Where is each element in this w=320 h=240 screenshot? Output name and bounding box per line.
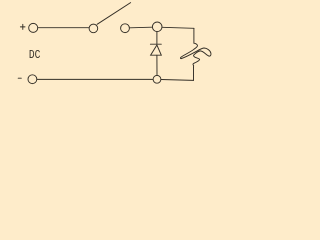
terminal + (top left): [29, 23, 38, 32]
wire bottom rail right: [161, 79, 193, 82]
switch S1 arm: [97, 3, 131, 25]
diode D1 cathode bar: [150, 43, 161, 45]
switch S1 left contact: [89, 24, 98, 33]
diode D1 triangle: [151, 45, 162, 55]
wire right vertical upper: [193, 28, 195, 43]
minus label: [18, 77, 21, 79]
wire node to top-right corner: [162, 27, 194, 28]
inductor L1 (relay coil squiggle): [180, 43, 211, 66]
node bottom junction: [153, 75, 161, 83]
wire right vertical lower: [193, 67, 195, 80]
plus label: [20, 24, 25, 29]
wire top rail left: [38, 27, 89, 29]
wire switch to node: [130, 26, 152, 29]
diode D1 lead from top node: [156, 32, 158, 44]
switch S1 right contact: [121, 24, 130, 33]
wire bottom rail left: [37, 78, 153, 80]
diode D1 lead to bottom node: [156, 55, 158, 75]
svg-text:DC: DC: [29, 48, 41, 62]
terminal - (bottom left): [28, 75, 37, 84]
node top junction: [152, 22, 162, 32]
wire coil tail: [193, 66, 195, 68]
